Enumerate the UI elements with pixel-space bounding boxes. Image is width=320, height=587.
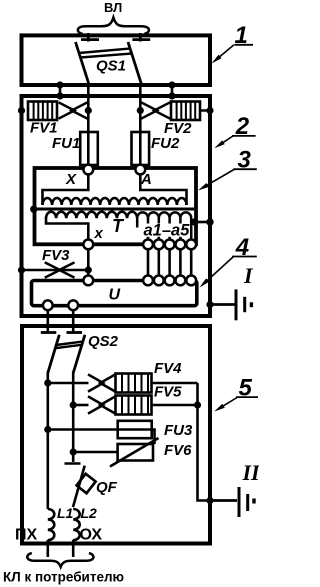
svg-text:I: I — [243, 263, 254, 288]
LV busbar box U — [32, 281, 197, 306]
wire L1 out — [46, 540, 49, 557]
breaker QF fixed contact — [65, 456, 81, 464]
svg-text:ПХ: ПХ — [15, 527, 38, 544]
FV5 body — [116, 396, 152, 415]
FV3 spark gap — [45, 262, 75, 277]
QS2 fixed contact left — [41, 331, 57, 334]
junction dot FV1 conductor — [85, 107, 92, 114]
arrester FV5 wire — [73, 404, 88, 407]
secondary lead x — [46, 217, 88, 239]
varistor FV6 — [118, 444, 153, 461]
svg-text:QS1: QS1 — [96, 57, 126, 74]
QS1 linkage bar — [79, 49, 132, 58]
tap wires a1-a5 — [148, 228, 191, 240]
reactor L1 coil — [48, 509, 55, 540]
svg-text:ОХ: ОХ — [80, 527, 103, 544]
fuse FU3 — [118, 421, 152, 438]
wire VL right drop — [139, 33, 142, 39]
wire VL left drop — [87, 33, 90, 39]
terminals on U top — [83, 276, 93, 286]
disconnector QS1 fixed contact right — [132, 36, 150, 42]
FV5 spark gap — [88, 396, 115, 413]
terminals on U bottom — [43, 300, 53, 310]
transformer T secondary winding — [46, 212, 137, 218]
fuse FU2 — [132, 132, 150, 165]
junction dot bus FV5 — [194, 401, 201, 408]
reactor L2 coil — [73, 509, 80, 540]
svg-text:U: U — [109, 287, 121, 304]
arrester FV4 wire — [48, 382, 89, 385]
transformer core — [36, 208, 194, 211]
wires U to QS2 — [46, 310, 49, 332]
primary winding lead A — [140, 175, 186, 205]
varistor FV6 wire — [73, 451, 117, 454]
svg-text:II: II — [242, 460, 260, 485]
brace over incoming line — [78, 18, 149, 35]
label a1-a5 — [143, 224, 191, 237]
FU3 through wire — [118, 430, 155, 445]
junction dot FV3 x lead — [85, 266, 92, 273]
disconnector QS1 blade right — [128, 42, 142, 86]
bond stub right between box1 and box2 — [171, 85, 174, 96]
svg-text:A: A — [140, 171, 152, 188]
FV2 hatch — [177, 102, 196, 121]
FV4 body — [116, 374, 152, 393]
arrester FV1 body — [28, 102, 57, 121]
ground II wire — [210, 499, 237, 502]
ground I symbol — [235, 289, 238, 320]
fuse FU1 — [80, 132, 98, 165]
transformer tank box 3 — [35, 168, 197, 244]
disconnector QS1 blade left — [76, 42, 90, 86]
junction dot FV3 wall — [18, 266, 25, 273]
svg-text:L1: L1 — [57, 505, 74, 521]
bushing A — [135, 165, 145, 175]
junction dot FV1 wall — [18, 107, 25, 114]
QS2 blade right — [73, 335, 85, 373]
svg-text:QS2: QS2 — [88, 333, 119, 350]
junction dot — [56, 81, 63, 88]
svg-text:FV6: FV6 — [164, 442, 192, 459]
disconnector QS1 fixed contact left — [81, 36, 99, 42]
right pole wire — [72, 372, 75, 457]
junction dot FV4 — [44, 379, 51, 386]
bushing X — [83, 165, 93, 175]
svg-text:FV3: FV3 — [42, 247, 70, 264]
tank bond right — [195, 221, 210, 224]
fuse FU3 wire — [48, 428, 118, 431]
box 5 (LV cabinet) — [22, 326, 210, 544]
junction dot bus wall — [206, 497, 213, 504]
svg-text:FV5: FV5 — [154, 384, 182, 401]
junction dot — [206, 218, 213, 225]
svg-text:FV4: FV4 — [154, 360, 182, 377]
bus to ground II — [198, 383, 211, 501]
junction dot FV2 wall — [206, 107, 213, 114]
left pole wire — [46, 372, 49, 510]
svg-text:FU1: FU1 — [52, 135, 80, 152]
ground I wire — [210, 303, 235, 306]
junction dot — [191, 218, 198, 225]
tap leads down — [148, 250, 191, 276]
wire FV1 to conductor — [86, 109, 89, 112]
LV bushing x — [83, 240, 93, 250]
ground II symbol — [238, 487, 241, 517]
junction dot FV2 conductor — [137, 107, 144, 114]
junction dot — [168, 81, 175, 88]
junction dot — [168, 92, 175, 99]
FV1 spark gap — [59, 102, 88, 118]
svg-text:x: x — [94, 225, 104, 242]
FV4 wire to bus — [152, 382, 198, 385]
arrester FV2 body — [171, 102, 200, 121]
svg-text:a1–a5: a1–a5 — [144, 221, 191, 239]
bottom brace — [27, 553, 93, 567]
svg-text:QF: QF — [96, 479, 118, 496]
QS2 fixed contact right — [67, 331, 83, 334]
FV4 hatch — [122, 374, 148, 393]
secondary tap section arches — [137, 212, 191, 227]
arrester FV2 spark gap — [141, 102, 170, 118]
junction dot FV6 — [70, 448, 77, 455]
wire L2 out — [72, 540, 75, 557]
QS2 blade left — [48, 335, 60, 373]
FV4 spark gap — [88, 374, 115, 391]
wire x lead down — [87, 250, 90, 276]
svg-text:FU2: FU2 — [151, 135, 180, 152]
svg-text:L2: L2 — [81, 505, 98, 521]
junction dot FV5 — [70, 401, 77, 408]
junction dot ground I — [206, 301, 213, 308]
FV5 wire to bus — [152, 404, 198, 407]
LV bushings a1-a5 — [143, 240, 153, 250]
svg-text:ВЛ: ВЛ — [104, 0, 122, 15]
FV5 hatch — [122, 396, 148, 415]
svg-text:FU3: FU3 — [164, 422, 193, 439]
arrester FV3 wire — [22, 269, 89, 272]
QF rect — [77, 474, 96, 493]
breaker QF blade — [73, 466, 85, 507]
svg-text:X: X — [65, 171, 77, 188]
wire right conductor box1 to bushing A — [139, 85, 142, 165]
svg-text:FV1: FV1 — [30, 120, 58, 137]
QS2 linkage — [55, 342, 81, 349]
FV6 diagonal — [110, 438, 159, 467]
box 2 (transformer cabinet) — [22, 96, 211, 316]
junction dot FU3 — [44, 426, 51, 433]
primary winding lead X — [43, 175, 89, 205]
transformer T primary winding — [43, 198, 187, 205]
wire left conductor box1 to bushing X — [87, 85, 90, 165]
junction dot core at tank edge — [30, 206, 37, 213]
junction dot — [56, 92, 63, 99]
box 1 (incoming cabinet) — [22, 35, 211, 85]
bond stub left between box1 and box2 — [59, 85, 62, 96]
svg-text:T: T — [112, 216, 125, 236]
wire FV2 to wall — [140, 109, 210, 112]
FV1 hatch — [34, 102, 53, 121]
svg-text:КЛ к потребителю: КЛ к потребителю — [3, 570, 124, 585]
